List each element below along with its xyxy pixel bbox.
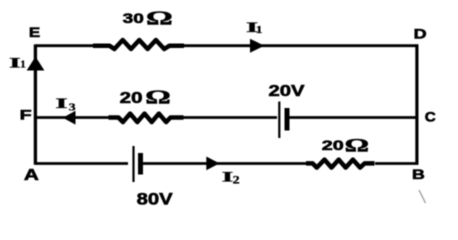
svg-text:Ω: Ω bbox=[145, 87, 171, 109]
svg-text:A: A bbox=[24, 167, 40, 184]
svg-text:B: B bbox=[412, 166, 425, 182]
svg-text:I: I bbox=[55, 96, 68, 112]
svg-text:Ω: Ω bbox=[146, 8, 173, 30]
svg-text:1: 1 bbox=[20, 59, 26, 70]
svg-text:1: 1 bbox=[256, 25, 263, 36]
svg-text:20: 20 bbox=[322, 138, 344, 153]
svg-text:F: F bbox=[20, 107, 33, 123]
svg-text:Ω: Ω bbox=[345, 136, 369, 156]
svg-text:30: 30 bbox=[123, 10, 144, 26]
svg-text:C: C bbox=[425, 109, 436, 125]
svg-text:3: 3 bbox=[69, 101, 77, 113]
svg-text:20V: 20V bbox=[269, 83, 306, 100]
svg-text:20: 20 bbox=[120, 90, 143, 107]
svg-text:80V: 80V bbox=[137, 190, 174, 209]
svg-text:2: 2 bbox=[233, 175, 240, 187]
svg-text:D: D bbox=[414, 26, 427, 42]
svg-text:E: E bbox=[29, 24, 40, 40]
